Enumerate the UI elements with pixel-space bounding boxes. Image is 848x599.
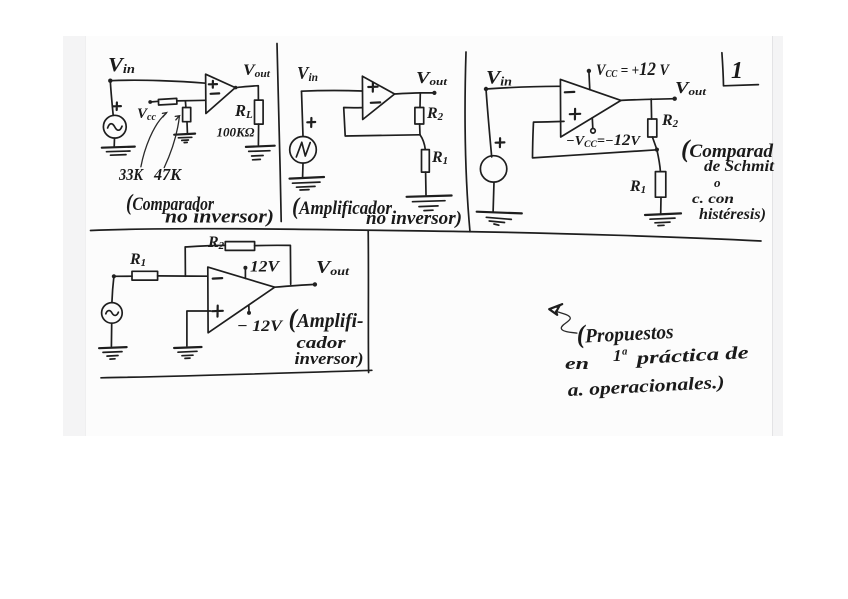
- resistor 33K (horizontal): [158, 98, 177, 105]
- svg-text:de Schmit: de Schmit: [704, 158, 775, 175]
- source V1 (sine source): [113, 103, 121, 111]
- wire output to Vout: [275, 284, 315, 287]
- resistor R1: [655, 172, 665, 198]
- arrow from 33K label to resistor: [141, 113, 166, 166]
- wire source to ground: [110, 323, 112, 346]
- wire Vin corner down to source: [302, 91, 304, 136]
- wire R1 to inverting input: [158, 275, 208, 277]
- wire node to R1: [114, 275, 132, 277]
- wire RL to ground: [257, 124, 259, 145]
- svg-text:histéresis): histéresis): [699, 206, 766, 223]
- wire -Vcc pin: [591, 118, 594, 128]
- wire node down to source: [112, 276, 114, 302]
- svg-text:12V: 12V: [250, 259, 280, 276]
- svg-text:o: o: [714, 175, 721, 190]
- wire right border of circuit 4: [367, 231, 369, 373]
- source V2 (sine source): [307, 118, 315, 127]
- wire op-amp output to Vout: [621, 99, 675, 101]
- wire Vcc pin: [588, 71, 591, 89]
- svg-text:47K: 47K: [153, 165, 183, 184]
- wire junction to R1: [420, 135, 425, 150]
- ground under R1: [407, 196, 452, 197]
- wire junction to R1: [657, 150, 661, 172]
- wire op-amp output to Vout: [395, 93, 434, 94]
- op-amp U3: [560, 79, 621, 137]
- svg-text:no inversor): no inversor): [165, 207, 274, 228]
- wire R2 to junction: [419, 124, 421, 135]
- resistor R1 (horizontal): [132, 271, 158, 280]
- pin -Vcc open circle: [591, 129, 596, 134]
- wire R47K to ground: [186, 122, 188, 133]
- wire feedback left segment: [185, 245, 225, 247]
- svg-text:1ª: 1ª: [613, 346, 628, 365]
- wire feedback right segment down to output: [255, 245, 291, 284]
- svg-text:inversor): inversor): [295, 349, 364, 368]
- resistor RL: [255, 100, 264, 124]
- ground under R 47K: [174, 134, 195, 135]
- svg-text:en: en: [565, 354, 589, 373]
- wire Vin node to op-amp non-inverting input: [110, 80, 205, 83]
- resistor R2 (horizontal): [225, 242, 254, 251]
- node Vcc pin dot: [587, 69, 591, 73]
- ground under source V2: [290, 177, 325, 179]
- wire source to ground: [113, 138, 115, 147]
- node Vout: [432, 91, 436, 95]
- wire R1 to ground: [425, 172, 427, 195]
- node input: [112, 274, 116, 278]
- op-amp U1: [206, 74, 236, 113]
- ground under non-inverting input: [174, 347, 201, 348]
- node Vout dot: [313, 282, 317, 286]
- wire junction down to R 47K: [184, 101, 187, 107]
- page number corner mark 1: [722, 53, 759, 86]
- wire -12V pin: [248, 305, 250, 311]
- node -12V pin dot: [247, 311, 251, 315]
- svg-text:c. con: c. con: [692, 192, 734, 207]
- source V3: [496, 138, 505, 147]
- resistor R2: [415, 108, 424, 125]
- wire bottom border under circuit 4: [101, 370, 372, 378]
- node feedback junction: [655, 148, 659, 152]
- arrow from 47K label to resistor: [164, 116, 179, 167]
- wire Vin to op-amp non-inverting input: [302, 90, 363, 93]
- wire Vin to inverting input: [486, 86, 560, 89]
- wire +12V pin: [244, 269, 246, 278]
- arrow with squiggle: [556, 311, 578, 333]
- wire horizontal border under circuits 1-3: [91, 229, 762, 241]
- wire feedback from inverting input: [344, 108, 420, 137]
- wire R1 to ground: [660, 197, 662, 213]
- wire inverting input up to feedback: [184, 247, 186, 276]
- source V4 (sine source): [102, 303, 123, 324]
- node left terminal of R 33K: [148, 100, 152, 104]
- wire Vin down to source: [486, 89, 492, 157]
- wire source to ground: [492, 182, 495, 212]
- wire non-inverting input to ground: [187, 311, 211, 346]
- wire feedback to non-inverting input: [533, 121, 657, 157]
- wire source to ground: [302, 163, 304, 177]
- resistor R2: [648, 119, 657, 137]
- wire Vout down to R2: [419, 93, 421, 108]
- svg-text:1: 1: [731, 58, 743, 84]
- wire output down to R2: [650, 99, 652, 119]
- wire R33K to inverting input: [177, 99, 206, 102]
- node Vin (input node): [108, 79, 112, 83]
- wire Vin node down to source: [110, 81, 113, 116]
- svg-text:no inversor): no inversor): [366, 208, 462, 229]
- node Vout dot: [673, 97, 677, 101]
- svg-text:33K: 33K: [118, 165, 144, 184]
- ground under source V4: [99, 347, 127, 348]
- node Vin: [484, 87, 488, 91]
- resistor R1: [422, 150, 430, 173]
- ground under R1: [645, 213, 681, 215]
- ground under source V1: [102, 147, 135, 148]
- wire R2 to junction: [652, 137, 656, 149]
- svg-text:100KΩ: 100KΩ: [217, 125, 255, 140]
- ground under RL: [246, 146, 275, 147]
- ground under source V3: [477, 212, 522, 214]
- wire op-amp output to Vout: [235, 86, 258, 100]
- resistor 47K (vertical): [183, 108, 191, 122]
- node +12V pin dot: [243, 266, 247, 270]
- op-amp U4: [208, 267, 275, 333]
- svg-text:−VCC=−12V: −VCC=−12V: [566, 132, 641, 149]
- svg-text:− 12V: − 12V: [237, 318, 283, 335]
- op-amp U2: [362, 76, 394, 119]
- wire divider between circuit 2 and circuit 3: [465, 52, 470, 232]
- wire divider between circuit 1 and circuit 2: [277, 44, 281, 222]
